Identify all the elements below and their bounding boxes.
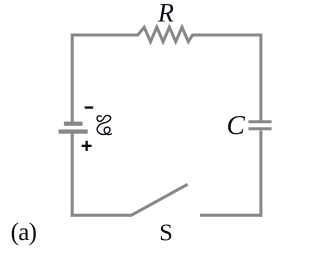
svg-text:C: C <box>227 109 246 140</box>
svg-text:(a): (a) <box>11 219 37 246</box>
svg-text:S: S <box>159 220 173 247</box>
svg-text:R: R <box>157 0 174 27</box>
